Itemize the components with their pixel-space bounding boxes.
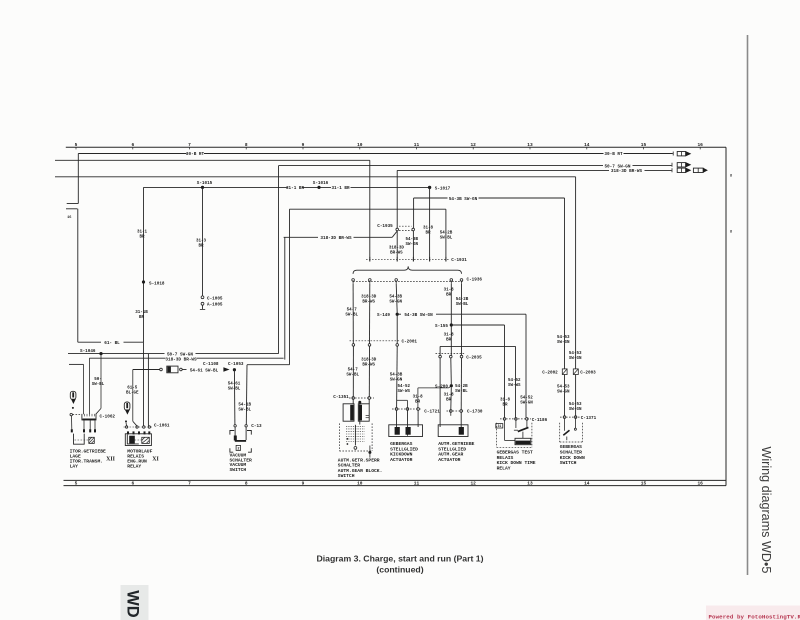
wire C-1108 row lead bbox=[133, 369, 160, 371]
svg-text:C-1061: C-1061 bbox=[154, 423, 170, 428]
svg-text:5: 5 bbox=[75, 481, 78, 487]
svg-text:50-: 50- bbox=[94, 378, 102, 382]
time relay dashed housing bbox=[496, 423, 498, 448]
connector C-1108 circle left bbox=[160, 368, 163, 371]
svg-text:ITOR.TRANSM.: ITOR.TRANSM. bbox=[70, 459, 103, 465]
svg-text:5: 5 bbox=[75, 142, 78, 148]
connector C-2035 pin 2 bbox=[450, 355, 453, 358]
svg-text:8: 8 bbox=[730, 175, 732, 179]
connector C-1186 pin 3 bbox=[526, 418, 529, 421]
wire vertical S-1018 branch bbox=[143, 187, 145, 342]
engine run relay inner frame bbox=[127, 435, 139, 444]
connector C-1721 pin 3 bbox=[417, 408, 420, 411]
svg-text:XI: XI bbox=[152, 456, 159, 462]
svg-text:C-1108: C-1108 bbox=[203, 362, 219, 367]
dashed pairing line C-1935 bbox=[399, 225, 412, 227]
svg-text:16: 16 bbox=[697, 481, 703, 487]
svg-text:C-1186: C-1186 bbox=[532, 418, 548, 423]
svg-text:12: 12 bbox=[470, 481, 476, 487]
connector C-1186 pin 1 bbox=[503, 418, 506, 421]
wire C-2035 horizontal bbox=[440, 345, 515, 347]
svg-text:54-53: 54-53 bbox=[557, 336, 570, 340]
svg-text:54-53: 54-53 bbox=[569, 403, 582, 407]
svg-text:C-1062: C-1062 bbox=[100, 414, 116, 419]
wire C-1721 pin3 into actuator bbox=[417, 410, 419, 427]
wire C-1062 to pin 2 bbox=[83, 420, 85, 429]
wire loop bottom horizontal y364 bbox=[247, 364, 290, 366]
svg-text:54-2B: 54-2B bbox=[456, 298, 469, 302]
connector C-1936 dashed pin row bbox=[353, 281, 463, 283]
vacuum switch housing bracket top-right bbox=[247, 431, 251, 435]
svg-text:C-1371: C-1371 bbox=[581, 416, 597, 421]
engine run relay pins bbox=[127, 431, 129, 434]
svg-text:54-3B: 54-3B bbox=[389, 296, 402, 300]
svg-text:9: 9 bbox=[302, 142, 305, 148]
junction dot at switch top bbox=[358, 401, 361, 404]
wire S-149 to GEBERGAS TEST RELAIS leg bbox=[397, 313, 401, 315]
svg-text:8: 8 bbox=[730, 230, 732, 234]
gear block switch ladder contact bbox=[346, 438, 365, 440]
svg-text:SCHALTER: SCHALTER bbox=[560, 450, 582, 456]
wire into switch solenoid left bbox=[352, 399, 354, 404]
wire 318-3D BR-WS middle horizontal bbox=[284, 236, 318, 238]
vacuum switch pin circle 2 bbox=[245, 425, 247, 427]
wire vertical x451 from pin row bbox=[450, 284, 452, 355]
connector C-1062 comb tooth bbox=[86, 414, 88, 417]
wire stub below C-1730 pin1 bbox=[450, 412, 452, 416]
svg-text:SWITCH: SWITCH bbox=[338, 473, 355, 479]
connector C-2035 dashed line bbox=[436, 353, 466, 355]
svg-text:BR-WS: BR-WS bbox=[362, 301, 375, 305]
gear block switch center contact bar bbox=[354, 425, 356, 446]
wire C-1062 circle to relay pin bbox=[71, 416, 73, 429]
connector C-1062 lead circle bbox=[70, 413, 72, 415]
svg-text:6: 6 bbox=[131, 481, 134, 487]
wire vertical x413 54-3B leg through C-1935 bbox=[413, 198, 415, 228]
off-page connector arrow 30-B RT bbox=[677, 152, 685, 156]
svg-text:31-8: 31-8 bbox=[444, 393, 455, 397]
time relay coil bbox=[515, 438, 531, 444]
svg-text:54-53: 54-53 bbox=[569, 352, 582, 356]
svg-text:SW-GN: SW-GN bbox=[569, 357, 582, 361]
svg-text:61- BL: 61- BL bbox=[104, 341, 120, 346]
svg-text:RELAY: RELAY bbox=[127, 464, 141, 470]
power feed arrow fuse 2 dot bbox=[125, 420, 127, 422]
connector C-1936 pin bbox=[450, 279, 453, 282]
bottom ruler lower line bbox=[64, 485, 727, 487]
wire into switch solenoid right bbox=[368, 399, 370, 404]
transmission relay dashed link bbox=[75, 439, 90, 441]
wire S-149 leg corner down x526 bbox=[525, 314, 527, 417]
connector C-1936 pin bbox=[395, 279, 398, 282]
transmission relay frame bbox=[74, 434, 85, 445]
svg-text:7: 7 bbox=[188, 481, 191, 487]
splice S-1015 bbox=[201, 186, 204, 189]
power feed arrow fuse 2 bbox=[124, 402, 130, 410]
splice C-1053 bbox=[233, 368, 236, 371]
wire vertical from 30-B RT corner down bbox=[77, 154, 79, 204]
svg-text:ACTUATOR: ACTUATOR bbox=[390, 457, 412, 463]
svg-text:KICKDOWN: KICKDOWN bbox=[390, 452, 412, 458]
wire from junction down switch center bbox=[359, 402, 361, 424]
connector C-1721 dashed row bbox=[392, 408, 421, 410]
wire kick-down leg x564 down bbox=[564, 198, 566, 369]
svg-text:AUTM.GEAR BLOCK.: AUTM.GEAR BLOCK. bbox=[338, 468, 383, 474]
connector C-1931 dashed row bbox=[366, 258, 449, 260]
wire C-2035 leg corner down x515 bbox=[515, 346, 517, 417]
gear block switch dashed housing bbox=[338, 423, 340, 451]
wire 61-BL horizontal bbox=[78, 341, 101, 343]
gear block switch solenoid plunger left bbox=[350, 405, 353, 421]
connector C-2001 pin 2 bbox=[368, 344, 371, 347]
wire vertical S-1015 to C-1005 bbox=[202, 187, 204, 296]
svg-text:RELAY: RELAY bbox=[497, 466, 511, 472]
svg-text:54-52: 54-52 bbox=[520, 396, 533, 400]
svg-text:BR: BR bbox=[425, 231, 431, 235]
vacuum switch label box bbox=[236, 445, 240, 450]
vacuum switch contact bar bbox=[235, 440, 246, 442]
connector C-1730 dashed row bbox=[447, 410, 465, 412]
svg-text:SW-BL: SW-BL bbox=[92, 383, 105, 387]
svg-text:SW-GN: SW-GN bbox=[390, 379, 403, 383]
svg-text:SWITCH: SWITCH bbox=[560, 460, 577, 466]
wire fuse2 to relay pin bbox=[125, 422, 128, 425]
svg-text:S-1046: S-1046 bbox=[80, 349, 96, 354]
connector C-1931 wire-end tick bbox=[396, 257, 398, 262]
connector C-1935 pin right bbox=[412, 228, 415, 231]
connector C-1186 dashed row bbox=[500, 418, 531, 420]
svg-text:SW-BL: SW-BL bbox=[346, 374, 359, 378]
svg-text:GEBERGAS TEST: GEBERGAS TEST bbox=[497, 449, 533, 455]
wire-end tick 318-3D bbox=[671, 168, 673, 172]
svg-text:10: 10 bbox=[357, 142, 363, 148]
gear block switch output dot bbox=[368, 451, 371, 454]
connector C-1351 dashed row bbox=[349, 397, 374, 399]
svg-text:ENG.RUN: ENG.RUN bbox=[127, 459, 147, 465]
vacuum switch housing bracket bottom-left bbox=[230, 448, 233, 452]
wire 30-B RT bus bbox=[78, 153, 186, 155]
svg-text:C-1053: C-1053 bbox=[228, 362, 244, 367]
splice S-200 bbox=[450, 384, 453, 387]
connector C-1935 pin left bbox=[396, 228, 399, 231]
wire loop drop to vacuum switch pin 2 bbox=[245, 365, 248, 425]
svg-text:SW-GN: SW-GN bbox=[557, 390, 570, 394]
wire stub below output dot bbox=[369, 452, 371, 457]
time relay coil feed wire bbox=[504, 420, 506, 440]
splice S-1017 bbox=[428, 186, 431, 189]
svg-text:15: 15 bbox=[641, 481, 647, 487]
svg-text:SW-BL: SW-BL bbox=[456, 303, 469, 307]
kick down switch wire in bbox=[564, 418, 566, 430]
svg-text:13: 13 bbox=[527, 481, 533, 487]
connector C-1936 pin bbox=[369, 279, 372, 282]
svg-text:7: 7 bbox=[188, 142, 191, 148]
engine run relay dashed link bbox=[135, 439, 143, 441]
wire corner x440 down to C-2035 bbox=[439, 346, 441, 355]
svg-text:KICK DOWN: KICK DOWN bbox=[560, 455, 585, 461]
svg-text:BR: BR bbox=[446, 294, 452, 298]
svg-text:S-149: S-149 bbox=[377, 313, 390, 318]
svg-text:(continued): (continued) bbox=[376, 565, 423, 575]
connector C-1186 pin 2 bbox=[515, 418, 518, 421]
wire C-1053 down to vacuum switch bbox=[233, 370, 236, 425]
svg-text:BR: BR bbox=[446, 338, 452, 342]
connector C-1061 pin circle bbox=[143, 426, 145, 428]
wire diagonal into C-1935 bbox=[392, 231, 397, 237]
wire S-155 to relay leg bbox=[451, 324, 504, 326]
wire 61-5 BL-GE down bbox=[132, 370, 134, 422]
connector C-1061 pin circle bbox=[125, 426, 127, 428]
svg-text:LAY: LAY bbox=[70, 464, 79, 470]
wire 50-7 SW-GN lower bus bbox=[68, 353, 165, 355]
wire C-1062 to pin 4 bbox=[94, 420, 96, 429]
connector C-1062 comb tooth bbox=[89, 414, 91, 417]
off-page connector arrow 318-3D BR-WS second bbox=[693, 168, 703, 172]
top ruler scale line bbox=[66, 146, 726, 148]
wire pin2 down to S-200 bbox=[450, 358, 453, 384]
wire jog x397 to x407 bbox=[397, 399, 407, 401]
svg-text:318-3D: 318-3D bbox=[361, 296, 377, 300]
wire vertical x83 to C-1062 bbox=[83, 364, 85, 414]
connector C-1371 dashed row bbox=[560, 416, 580, 418]
svg-text:318-3D BR-WS: 318-3D BR-WS bbox=[165, 358, 197, 363]
gear block switch solenoid frame right bbox=[358, 404, 369, 421]
svg-text:8: 8 bbox=[245, 481, 248, 487]
time relay contact arm bbox=[518, 427, 529, 431]
splice S-155 bbox=[450, 323, 453, 326]
svg-text:S-155: S-155 bbox=[435, 324, 448, 329]
svg-text:S-1017: S-1017 bbox=[435, 186, 451, 191]
time relay coil post bbox=[522, 432, 524, 439]
svg-text:WD: WD bbox=[124, 590, 142, 618]
wire stub below A-1005 bbox=[202, 305, 204, 309]
wire from S-200 left to x417 leg bbox=[418, 387, 449, 389]
svg-text:C-2035: C-2035 bbox=[466, 355, 482, 360]
connector C-1931 wire-end tick bbox=[412, 257, 414, 262]
svg-text:54-52: 54-52 bbox=[398, 385, 411, 389]
gear block switch ladder contact bbox=[346, 441, 365, 443]
svg-text:Diagram 3. Charge, start and r: Diagram 3. Charge, start and run (Part 1… bbox=[316, 554, 483, 564]
wire 31-1 BR horizontal S-1015 to S-1017 bbox=[144, 186, 288, 188]
svg-text:SW-GN: SW-GN bbox=[569, 408, 582, 412]
time relay terminal box 31 bbox=[496, 424, 503, 428]
svg-text:A-1005: A-1005 bbox=[207, 303, 223, 308]
svg-text:C-13: C-13 bbox=[251, 424, 262, 429]
svg-text:54-3B: 54-3B bbox=[406, 238, 419, 242]
connector C-1931 wire-end tick bbox=[445, 257, 447, 262]
svg-text:GEBERGAS: GEBERGAS bbox=[390, 441, 412, 447]
svg-text:14: 14 bbox=[584, 142, 590, 148]
wire C-1730 pin2 into gear actuator bbox=[460, 412, 462, 427]
wire S-1046 drop bbox=[100, 354, 102, 409]
wire C-1721 pin2 into actuator bbox=[407, 410, 409, 436]
connector C-1936 pin bbox=[460, 279, 463, 282]
svg-text:C-1936: C-1936 bbox=[467, 278, 483, 283]
power feed arrow fuse 1 dot bbox=[72, 407, 74, 409]
connector C-2035 pin 3 bbox=[460, 355, 463, 358]
kick down switch dashed housing bbox=[559, 423, 561, 442]
svg-text:SW-BL: SW-BL bbox=[345, 314, 358, 318]
end bar below A-1005 bbox=[200, 308, 205, 310]
connector C-2001 pin 3 bbox=[396, 344, 399, 347]
svg-text:11: 11 bbox=[414, 142, 420, 148]
svg-text:RELAIS: RELAIS bbox=[127, 454, 144, 460]
transmission relay heater element bbox=[89, 437, 95, 443]
svg-text:31-1 BR: 31-1 BR bbox=[331, 186, 349, 191]
svg-text:C-1721: C-1721 bbox=[424, 409, 440, 414]
wire vertical x369 bus2 leg to C-1931 bbox=[369, 160, 371, 257]
connector C-1061 dashed row bbox=[124, 426, 153, 428]
gear block switch ladder contact bbox=[346, 428, 365, 430]
wire bus4 to kick-down switch leg bbox=[55, 176, 576, 178]
off-page break stub lower bbox=[66, 208, 77, 210]
svg-text:54-7: 54-7 bbox=[347, 309, 358, 313]
vacuum switch contact plunger bbox=[234, 427, 236, 436]
connector C-1936 pin bbox=[352, 279, 355, 282]
bottom ruler upper line bbox=[64, 479, 727, 481]
svg-text:C-2002: C-2002 bbox=[542, 370, 558, 375]
gear actuator plunger bbox=[459, 427, 464, 435]
svg-text:BR: BR bbox=[139, 236, 145, 240]
kickdown actuator plunger right bbox=[406, 427, 411, 435]
wire 54-3B SW-GN upper horizontal bbox=[414, 197, 448, 199]
svg-text:16: 16 bbox=[697, 142, 703, 148]
svg-text:C-1005: C-1005 bbox=[207, 296, 223, 301]
harness brace bbox=[353, 266, 462, 273]
svg-text:SW-GN: SW-GN bbox=[389, 301, 402, 305]
svg-text:SW-GN: SW-GN bbox=[406, 243, 419, 247]
svg-text:SCHALTER: SCHALTER bbox=[338, 463, 360, 469]
splice S-1016 bbox=[317, 186, 320, 189]
gear block switch position dot 2 bbox=[347, 443, 349, 445]
gear block switch contact tick bbox=[366, 414, 370, 416]
wire left stub y364 bbox=[69, 363, 84, 365]
svg-text:6: 6 bbox=[131, 142, 134, 148]
kickdown actuator body bbox=[389, 425, 423, 437]
svg-text:8: 8 bbox=[245, 142, 248, 148]
svg-text:BR: BR bbox=[139, 316, 145, 320]
arrow toward C-1053 bbox=[223, 367, 229, 371]
connector C-1062 comb tooth bbox=[84, 414, 86, 417]
connector A-1005 pin bbox=[201, 302, 204, 305]
connector C-1730 pin 1 bbox=[450, 410, 453, 413]
svg-text:54-3B SW-GN: 54-3B SW-GN bbox=[404, 313, 433, 318]
splice S-1046 bbox=[99, 352, 102, 355]
svg-text:318-3D BR-WS: 318-3D BR-WS bbox=[611, 169, 643, 174]
gear block switch bottom terminal circle bbox=[354, 447, 357, 450]
wire C-1721 pin1 into actuator bbox=[396, 410, 398, 427]
gear actuator body bbox=[438, 425, 468, 437]
svg-text:BR: BR bbox=[502, 404, 508, 408]
vacuum switch right lead bbox=[245, 427, 247, 440]
svg-text:30-B RT: 30-B RT bbox=[604, 152, 623, 157]
off-page connector arrow 50-7 SW-GN bbox=[677, 163, 685, 167]
svg-text:BR: BR bbox=[198, 245, 204, 249]
svg-text:11: 11 bbox=[414, 481, 420, 487]
svg-text:31-3: 31-3 bbox=[196, 240, 207, 244]
WD tab block bbox=[121, 585, 149, 620]
splice S-149 bbox=[396, 313, 399, 316]
gear block switch ladder contact bbox=[346, 435, 365, 437]
connector C-1005 pin bbox=[201, 296, 204, 299]
svg-text:31-1 BR: 31-1 BR bbox=[286, 186, 304, 191]
inline connector C-2003 bbox=[573, 369, 578, 375]
connector C-2035 pin 1 bbox=[439, 355, 442, 358]
wire vertical x429 from S-1017 bbox=[429, 187, 431, 257]
kick down switch contact arm bbox=[563, 430, 569, 435]
connector C-1351 pin right bbox=[368, 397, 371, 400]
inline fuse C-1108 body bbox=[167, 366, 178, 373]
kick down switch lower post bbox=[566, 437, 568, 441]
svg-text:BR-WS: BR-WS bbox=[362, 364, 375, 368]
gear block switch solenoid plunger right bbox=[359, 405, 362, 421]
connector C-2001 dashed line bbox=[350, 340, 400, 342]
svg-text:C-1351: C-1351 bbox=[333, 395, 349, 400]
vacuum switch housing bracket top-left bbox=[230, 431, 234, 435]
connector C-1730 pin 2 bbox=[460, 410, 463, 413]
wire x143 down to relay bbox=[143, 342, 145, 426]
transmission relay pins bbox=[71, 429, 73, 432]
svg-text:SW-BL: SW-BL bbox=[238, 408, 251, 412]
wire-end tick 30-B RT bbox=[672, 152, 674, 156]
wire-end tick 50-7 bbox=[671, 163, 673, 167]
vacuum switch housing bracket bottom-right bbox=[248, 448, 251, 452]
svg-text:SW-WS: SW-WS bbox=[398, 390, 411, 394]
svg-text:50-7 SW-GN: 50-7 SW-GN bbox=[167, 352, 193, 357]
connector C-1062 comb tooth bbox=[93, 414, 95, 417]
connector C-1062 comb tooth bbox=[91, 414, 93, 417]
splice S-1018 bbox=[142, 280, 145, 283]
wire vertical x446 from y209 loop bbox=[445, 209, 447, 257]
svg-text:ACTUATOR: ACTUATOR bbox=[438, 457, 460, 463]
svg-text:54-53: 54-53 bbox=[557, 385, 570, 389]
wire x148 down to relay bbox=[147, 354, 149, 426]
svg-text:RELAIS: RELAIS bbox=[497, 455, 514, 461]
connector C-2001 pin 1 bbox=[352, 344, 355, 347]
gear block switch ladder contact bbox=[346, 433, 365, 435]
svg-text:12: 12 bbox=[470, 142, 476, 148]
connector C-1062 shell bbox=[82, 414, 96, 420]
svg-text:STELLGLIED: STELLGLIED bbox=[438, 446, 466, 452]
wire 318-3D BR-WS lower bus bbox=[89, 357, 165, 359]
wire after C-1108 bbox=[182, 369, 186, 371]
connector C-1371 pin 2 bbox=[574, 416, 577, 419]
engine run relay body bbox=[125, 434, 151, 446]
wire vertical x89 to C-1062 bbox=[88, 358, 90, 414]
svg-text:31-1: 31-1 bbox=[137, 231, 148, 235]
svg-text:10: 10 bbox=[357, 481, 363, 487]
wire vertical at x284 from 318-3D mid wire bbox=[284, 237, 286, 359]
wire 50-7 SW-GN top bus bbox=[279, 165, 604, 167]
svg-text:54-3B: 54-3B bbox=[390, 374, 403, 378]
connector C-1721 pin 2 bbox=[406, 408, 409, 411]
svg-text:9: 9 bbox=[302, 481, 305, 487]
wire x440 into gear actuator bbox=[439, 358, 441, 427]
kickdown actuator plunger left bbox=[395, 427, 400, 435]
gear block switch solenoid frame left bbox=[343, 404, 354, 421]
wire x461 down to C-1730 bbox=[461, 284, 463, 355]
svg-text:C-1730: C-1730 bbox=[467, 409, 483, 414]
wire vertical 54-3B SW-GN x397 bbox=[396, 284, 397, 313]
svg-text:LAGE: LAGE bbox=[70, 454, 81, 460]
wire vertical 54-7 SW-BL x353 bbox=[352, 284, 354, 344]
svg-text:31-1B: 31-1B bbox=[135, 311, 148, 315]
kick down switch fixed contact bbox=[575, 418, 577, 428]
svg-text:ITOR.GETRIEBE: ITOR.GETRIEBE bbox=[70, 448, 106, 454]
svg-text:S-1018: S-1018 bbox=[149, 281, 165, 286]
svg-text:16: 16 bbox=[67, 216, 71, 220]
svg-text:XII: XII bbox=[106, 456, 116, 462]
